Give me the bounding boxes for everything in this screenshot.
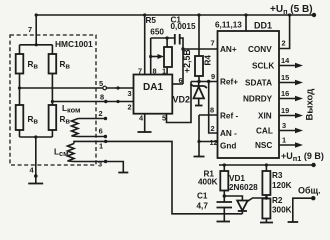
svg-text:XIN: XIN bbox=[258, 112, 272, 121]
ADC DD1 box bbox=[218, 31, 280, 158]
wire +9V rail bbox=[219, 163, 316, 167]
svg-text:4,7: 4,7 bbox=[197, 202, 209, 211]
svg-text:VD2: VD2 bbox=[173, 95, 191, 105]
ground bridge bbox=[28, 183, 43, 185]
svg-text:7: 7 bbox=[28, 25, 32, 34]
ground C1 bbox=[217, 221, 231, 223]
pin 8 DA1 bbox=[150, 38, 152, 75]
svg-text:DD1: DD1 bbox=[254, 21, 272, 31]
svg-text:8: 8 bbox=[153, 67, 157, 76]
ground R2 bbox=[260, 222, 273, 224]
pin 1 NSC arrow bbox=[279, 142, 303, 148]
pin 1 DA1 bbox=[166, 67, 168, 75]
svg-text:AN+: AN+ bbox=[220, 45, 237, 54]
svg-text:14: 14 bbox=[281, 56, 290, 65]
svg-text:Rв: Rв bbox=[28, 60, 39, 71]
svg-text:2: 2 bbox=[282, 39, 286, 48]
svg-text:8: 8 bbox=[100, 93, 104, 102]
pin 6 DA1 wire bbox=[172, 83, 183, 85]
resistor R3 120K bbox=[265, 165, 267, 171]
svg-text:NDRDY: NDRDY bbox=[243, 95, 273, 104]
svg-text:300K: 300K bbox=[272, 206, 292, 215]
svg-text:+2,5В: +2,5В bbox=[182, 49, 192, 73]
wire bridge bottom node bbox=[20, 135, 53, 183]
wire Lkom pin6 stub bbox=[78, 135, 107, 138]
resistor RB top-right bbox=[49, 54, 57, 74]
svg-text:VD1: VD1 bbox=[229, 174, 245, 183]
svg-text:Rв: Rв bbox=[60, 60, 71, 71]
pin 7 HMC1001 bbox=[35, 15, 38, 46]
svg-text:Выход: Выход bbox=[305, 89, 316, 121]
svg-text:Rв: Rв bbox=[60, 115, 71, 126]
resistor R5 650 trimmer bbox=[164, 47, 172, 67]
svg-text:R2: R2 bbox=[272, 196, 283, 205]
wire C1 right to AN+ vertical bbox=[180, 38, 183, 84]
resistor R1 400K bbox=[223, 165, 225, 171]
wire set/reset line from Lcm pin1 to oscillator bbox=[74, 140, 242, 214]
node R1/C1/VD1 bbox=[223, 194, 226, 197]
svg-text:5: 5 bbox=[162, 114, 166, 123]
resistor RB top-left bbox=[16, 54, 24, 74]
pin 15 SDATA arrow bbox=[279, 80, 303, 86]
svg-text:+Uп (5 В): +Uп (5 В) bbox=[270, 4, 313, 16]
svg-text:2: 2 bbox=[211, 124, 215, 133]
wire bridge top bbox=[20, 44, 53, 46]
svg-text:NSC: NSC bbox=[255, 141, 272, 150]
wire bridge left column bbox=[19, 45, 21, 137]
wire 6,11,13 supply bbox=[245, 15, 247, 31]
svg-text:Ref -: Ref - bbox=[220, 112, 238, 121]
pin 14 SCLK arrow bbox=[279, 63, 303, 69]
wire R5 top / C1 / pin8 bbox=[151, 36, 175, 39]
resistor RB bottom-left bbox=[16, 105, 24, 130]
svg-text:6: 6 bbox=[99, 127, 103, 136]
wire Gnd pin12 bbox=[197, 115, 217, 156]
svg-text:1: 1 bbox=[99, 142, 103, 151]
svg-text:1: 1 bbox=[282, 136, 286, 145]
svg-text:400K: 400K bbox=[198, 178, 218, 187]
wire A bridge left output to DA1 pin3 bbox=[18, 86, 134, 90]
wire bridge right column bbox=[51, 45, 53, 137]
pin 4 DA1 ground bbox=[144, 114, 146, 132]
svg-text:15: 15 bbox=[281, 73, 289, 82]
svg-text:R4: R4 bbox=[204, 55, 213, 66]
svg-text:7: 7 bbox=[211, 39, 215, 48]
wiper arrow R5 bbox=[149, 54, 164, 59]
svg-text:C1: C1 bbox=[197, 192, 208, 201]
svg-text:SCLK: SCLK bbox=[252, 62, 274, 71]
wire Ref- bbox=[199, 114, 218, 116]
svg-text:0,0015: 0,0015 bbox=[171, 22, 196, 31]
node AN+ bbox=[181, 47, 184, 50]
svg-text:3: 3 bbox=[128, 89, 132, 98]
capacitor C1 0,0015 bbox=[175, 34, 180, 45]
svg-text:5: 5 bbox=[99, 79, 103, 88]
terminal Obshch (common) bbox=[293, 196, 316, 222]
pin 5 DA1 wire to +2.5V node bbox=[167, 82, 192, 123]
svg-text:16: 16 bbox=[281, 89, 289, 98]
svg-text:12: 12 bbox=[210, 138, 218, 147]
pin 19 XIN arrow bbox=[279, 113, 303, 119]
svg-text:CAL: CAL bbox=[256, 127, 273, 136]
svg-text:9: 9 bbox=[211, 72, 215, 81]
svg-text:Общ.: Общ. bbox=[298, 186, 321, 196]
resistor R2 300K bbox=[262, 199, 270, 219]
resistor R4 bbox=[198, 15, 200, 56]
pin 16 NDRDY arrow bbox=[279, 96, 303, 102]
zener diode VD2 bbox=[191, 82, 207, 106]
capacitor C1 4,7 bbox=[217, 202, 233, 208]
pin 7 DA1 bbox=[144, 15, 146, 75]
pin 2 CONV wire bbox=[279, 15, 290, 49]
svg-text:Rв: Rв bbox=[28, 115, 39, 126]
svg-text:DA1: DA1 bbox=[143, 82, 163, 93]
svg-text:19: 19 bbox=[281, 106, 289, 115]
svg-text:6,11,13: 6,11,13 bbox=[215, 21, 242, 30]
wire +5V top rail bbox=[35, 13, 317, 17]
svg-text:Lком: Lком bbox=[62, 104, 81, 115]
wire AN+ to DD1 pin7 bbox=[183, 48, 218, 50]
svg-text:2N6028: 2N6028 bbox=[229, 183, 258, 192]
ground Lcm pin3 bbox=[118, 172, 128, 174]
svg-text:SDATA: SDATA bbox=[245, 79, 272, 88]
svg-text:8: 8 bbox=[210, 106, 214, 115]
svg-text:3: 3 bbox=[282, 121, 286, 130]
svg-text:3: 3 bbox=[98, 160, 102, 169]
wire AN- bracket bbox=[207, 80, 218, 133]
svg-text:Ref+: Ref+ bbox=[220, 78, 238, 87]
node gate/divider bbox=[265, 196, 268, 199]
svg-text:6: 6 bbox=[179, 76, 183, 85]
pin 3 CAL arrow bbox=[279, 128, 303, 134]
svg-text:650: 650 bbox=[150, 28, 164, 37]
ground Obshch bbox=[288, 221, 299, 223]
svg-text:2: 2 bbox=[128, 103, 132, 112]
wire Lcm pin3 to ground bbox=[74, 160, 123, 172]
sensor HMC1001 dashed box bbox=[10, 35, 96, 165]
wire Lkom pin2 stub bbox=[78, 117, 107, 120]
svg-text:HMC1001: HMC1001 bbox=[55, 39, 93, 49]
svg-text:2: 2 bbox=[99, 109, 103, 118]
svg-text:AN -: AN - bbox=[220, 129, 237, 138]
ground DD1 bbox=[194, 156, 205, 158]
resistor RB bottom-right bbox=[49, 105, 57, 130]
svg-text:7: 7 bbox=[138, 67, 142, 76]
svg-text:Gnd: Gnd bbox=[220, 142, 236, 151]
node Ref+ wire bbox=[191, 80, 218, 83]
op-amp DA1 box bbox=[134, 75, 173, 114]
svg-text:R3: R3 bbox=[272, 171, 283, 180]
svg-text:120K: 120K bbox=[272, 181, 292, 190]
svg-text:CONV: CONV bbox=[248, 45, 272, 54]
svg-text:R5: R5 bbox=[146, 16, 157, 25]
wire B bridge right output to DA1 pin2 bbox=[51, 100, 134, 103]
